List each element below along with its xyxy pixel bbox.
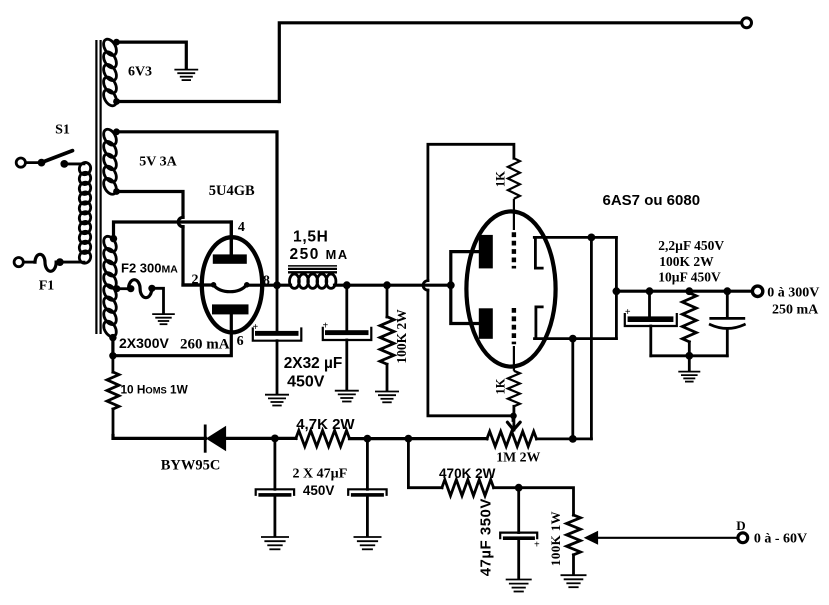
svg-text:470K 2W: 470K 2W [439, 466, 496, 481]
cathode bottom 6AS7 [536, 307, 542, 339]
svg-text:1K: 1K [494, 171, 508, 187]
wiper arrow 1M pot [507, 422, 520, 430]
svg-text:1,5H: 1,5H [293, 228, 329, 245]
node 5V3A taps [113, 128, 120, 135]
node HV bottom junction [109, 352, 116, 359]
svg-text:10 HOMS 1W: 10 HOMS 1W [121, 382, 189, 396]
wire 6V3 top tap to ground [117, 42, 187, 68]
node ground right network [685, 352, 693, 360]
plate top 5U4GB [213, 254, 247, 263]
svg-text:2X300V: 2X300V [119, 335, 169, 351]
node HV top tap [110, 235, 117, 242]
capacitor 2,2uF [625, 291, 677, 356]
svg-text:450V: 450V [303, 483, 335, 498]
wire rail 4,7K to pot [350, 437, 488, 440]
resistor 470K 2W [442, 480, 494, 496]
wire B+ line choke to plates [335, 284, 451, 287]
diode BYW95C [205, 426, 275, 451]
grid bottom 6AS7 [512, 308, 516, 371]
terminal top right [742, 18, 752, 28]
fuse F1 [14, 254, 79, 271]
svg-text:47µF 350V: 47µF 350V [478, 498, 495, 576]
svg-text:2X32 µF: 2X32 µF [284, 355, 343, 372]
wire ground stub [688, 356, 691, 371]
node choke output [343, 281, 351, 289]
capacitor 47uF B [348, 439, 386, 536]
ground under 47uF A [261, 537, 289, 549]
choke 1.5H coil [290, 274, 336, 288]
resistor 100K 2W left [380, 285, 394, 390]
svg-text:6AS7 ou 6080: 6AS7 ou 6080 [603, 192, 701, 209]
wire pin 2 [183, 283, 214, 286]
node grid bus wiper junction [510, 413, 517, 420]
wire HV bottom tap down [111, 338, 114, 356]
svg-text:10µF 450V: 10µF 450V [658, 270, 721, 285]
wire pin 8 to node [249, 284, 291, 287]
node 47uF350V tap [515, 484, 523, 492]
transformer winding 5V 3A [101, 127, 119, 196]
ground under 6V3 [174, 70, 198, 81]
transformer winding 6V3 [101, 37, 119, 108]
capacitor 10uF [710, 291, 744, 356]
terminal 0 a 300V [752, 286, 762, 296]
node HV bottom tap [109, 334, 116, 341]
node 100K right tap [685, 287, 693, 295]
wire 6V3 bottom tap [117, 100, 280, 103]
node 100K tap [383, 281, 391, 289]
svg-text:+: + [534, 540, 540, 551]
svg-text:260 mA: 260 mA [180, 337, 230, 353]
wire bottom rail left [113, 436, 206, 439]
fuse F2 [127, 280, 155, 298]
svg-text:4,7K 2W: 4,7K 2W [296, 416, 355, 433]
ground right network [678, 372, 700, 382]
node top cathode junction [588, 234, 596, 242]
node cap47 B tap [364, 435, 372, 443]
ground under 47uF B [354, 537, 382, 549]
svg-text:6: 6 [237, 334, 244, 349]
svg-text:5V 3A: 5V 3A [139, 155, 177, 170]
svg-text:1M 2W: 1M 2W [496, 450, 540, 465]
resistor 10 Homs 1W [107, 356, 119, 437]
wire heater line to top terminal [279, 23, 741, 102]
ground under C2 [335, 391, 359, 402]
wire line A cathode to pot [571, 339, 574, 439]
ground under 100K 1W [561, 575, 587, 587]
wire F2 to ground [152, 288, 164, 312]
resistor 4,7K 2W [296, 431, 350, 447]
ground under 100K 2W [375, 392, 399, 403]
svg-text:250 mA: 250 mA [772, 302, 819, 317]
plate bottom 5U4GB [212, 304, 249, 314]
svg-text:8: 8 [263, 274, 270, 289]
node pot right junction [569, 435, 577, 443]
rectifier 5U4GB envelope [202, 237, 262, 332]
wire 5V3A bottom tap riser to pin 2 [117, 192, 203, 286]
wire grid bus [428, 144, 514, 420]
wire pin 6 line [113, 314, 231, 356]
wire bottom cathode line [535, 337, 617, 340]
wire hop on grid bus at B+ crossing [423, 281, 428, 291]
node 2,2uF tap [646, 287, 654, 295]
node 6V3 taps [113, 39, 120, 46]
cathode top 6AS7 [535, 237, 542, 268]
wire plate bus [451, 252, 479, 324]
wire 100K1W to ground [572, 555, 575, 574]
svg-text:100K 2W: 100K 2W [394, 309, 409, 364]
wire hop on pin4 line crossing [178, 217, 183, 226]
wire cathode bus vertical [615, 237, 618, 338]
svg-text:2,2µF 450V: 2,2µF 450V [658, 238, 724, 253]
svg-text:1K: 1K [494, 378, 508, 394]
resistor 1K top [508, 144, 520, 199]
svg-text:250 MA: 250 MA [290, 246, 349, 263]
wire 470K branch [408, 439, 442, 488]
wire HV top tap to pin 4 [114, 222, 232, 254]
ground under F2 [152, 314, 175, 324]
svg-text:F2 300MA: F2 300MA [121, 261, 178, 276]
wire 470K to 100K1W [494, 488, 574, 516]
plate top 6AS7 [479, 235, 493, 269]
wire primary bottom lead [60, 261, 84, 264]
ground under 47uF 350V [506, 580, 532, 592]
svg-text:D: D [736, 518, 745, 533]
wire top cathode line [534, 236, 616, 239]
capacitor C2 32uF [323, 285, 372, 389]
svg-text:5U4GB: 5U4GB [209, 183, 255, 199]
wiper arrow 100K 1W [585, 532, 738, 544]
svg-text:2: 2 [192, 272, 199, 287]
svg-text:100K 2W: 100K 2W [659, 254, 714, 269]
wire bottom rail right network [651, 354, 728, 357]
transformer core [96, 40, 100, 334]
node bottom cathode junction [569, 335, 577, 343]
svg-text:0 à - 60V: 0 à - 60V [754, 532, 807, 547]
svg-text:450V: 450V [287, 374, 325, 391]
potentiometer 1M 2W [487, 431, 537, 446]
node output at cathode bus [613, 287, 621, 295]
svg-text:100K 1W: 100K 1W [548, 511, 563, 566]
svg-text:F1: F1 [39, 278, 55, 293]
svg-text:2 X 47µF: 2 X 47µF [293, 467, 348, 482]
plate bottom 6AS7 [479, 308, 493, 339]
potentiometer 100K 1W [567, 515, 581, 555]
capacitor 47uF A [256, 438, 294, 535]
svg-text:S1: S1 [55, 123, 70, 138]
wire pin 4 into plate [230, 222, 233, 256]
node plate bus junction [447, 281, 455, 289]
capacitor 47uF 350V [500, 488, 540, 578]
terminal D [738, 533, 748, 543]
wire 5V3A top tap to pin 8 node [117, 132, 278, 283]
wire output line [616, 290, 752, 293]
svg-text:6V3: 6V3 [128, 65, 152, 80]
node 10uF tap [723, 287, 731, 295]
ground under C1 [265, 395, 289, 406]
tube 6AS7 envelope [466, 211, 555, 366]
node pin 8 junction [273, 281, 281, 289]
node diode output [271, 435, 279, 443]
svg-text:0 à 300V: 0 à 300V [767, 286, 819, 301]
wire pot right to risers [537, 437, 592, 440]
capacitor C1 32uF [253, 285, 302, 393]
grid top 6AS7 [513, 199, 515, 269]
node 470K tap [405, 435, 413, 443]
svg-text:4: 4 [238, 220, 245, 235]
transformer primary winding [78, 161, 93, 265]
node HV center tap [114, 285, 121, 292]
wire 1K bottom to wiper junction [513, 406, 516, 430]
svg-text:BYW95C: BYW95C [161, 458, 221, 474]
wire rail to 4,7K [275, 437, 296, 440]
wire line B cathode to pot [590, 237, 593, 439]
resistor 100K 2W right [682, 293, 696, 356]
choke core bars [288, 266, 337, 272]
wire primary top lead [64, 162, 84, 165]
transformer winding 2X300V [101, 234, 119, 339]
filament 5U4GB [211, 282, 250, 292]
resistor 1K bottom [508, 371, 520, 407]
switch S1 [16, 151, 79, 168]
wire HV center tap to fuse F2 [117, 287, 129, 290]
